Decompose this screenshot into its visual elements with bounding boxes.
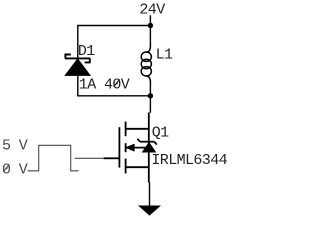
svg-text:0 V: 0 V [2,162,28,179]
slash in zero of 40V [114,79,120,86]
transistor Q1 (N-MOSFET with zener body diode) [104,113,157,183]
pulse waveform annotation [28,145,79,171]
wire top node left and down to D1 cathode [78,26,151,58]
node bottom junction (drain node) [148,93,153,98]
slash in zero of 0 V [3,164,9,171]
svg-text:1A 40V: 1A 40V [79,77,130,94]
wire bottom node down to Q1 drain [149,96,151,113]
ground [138,206,161,216]
svg-text:Q1: Q1 [152,124,169,141]
diode D1 (Schottky, cathode up) [65,55,90,76]
svg-text:24V: 24V [139,2,165,19]
svg-text:IRLML6344: IRLML6344 [151,152,227,169]
svg-text:L1: L1 [156,46,173,63]
wire D1 anode down and right to bottom node [78,75,151,95]
wire Q1 source down to ground [149,182,151,206]
wire inductor bottom to bottom node [149,84,151,96]
node top junction [148,23,153,28]
inductor L1 (spiral coil) [141,44,151,84]
wire from 24V label down to top node [149,15,151,25]
svg-text:5 V: 5 V [2,137,28,154]
wire top node down to inductor [149,26,151,45]
wire pulse to Q1 gate [75,157,104,159]
svg-text:D1: D1 [78,43,95,60]
